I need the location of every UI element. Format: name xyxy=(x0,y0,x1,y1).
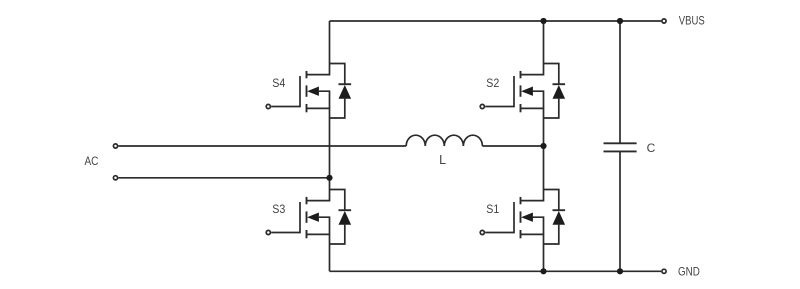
S2 body diode bottom stub xyxy=(544,98,559,118)
S1 body/source connection wire xyxy=(532,217,544,234)
S3 body/source connection wire xyxy=(318,217,330,234)
capacitor C top plate xyxy=(604,142,637,144)
transistor S3 (N-MOSFET with body diode) xyxy=(266,178,351,271)
terminal AC line2 circle xyxy=(113,176,117,180)
svg-text:C: C xyxy=(647,141,656,155)
S3 drain wire xyxy=(307,178,330,201)
S3 gate lead wire xyxy=(271,232,300,234)
junction node: capacitor / VBUS rail xyxy=(617,18,623,24)
S4 gate terminal circle xyxy=(266,104,270,108)
transistor S2 (N-MOSFET with body diode) xyxy=(480,21,565,146)
wire: top VBUS rail xyxy=(330,20,662,22)
S2 body diode triangle xyxy=(553,85,566,99)
S4 channel bottom dash (source) xyxy=(306,104,308,112)
S3 channel bottom dash (source) xyxy=(306,230,308,238)
S3 body diode bottom stub xyxy=(330,224,345,244)
junction node: S1 source / GND rail xyxy=(540,268,546,274)
S4 drain wire xyxy=(307,21,330,75)
svg-text:S1: S1 xyxy=(486,203,499,216)
wire: AC line2 to S4/S3 node xyxy=(118,177,329,179)
svg-text:AC: AC xyxy=(84,154,98,168)
S1 channel middle dash (body) xyxy=(520,211,522,222)
junction node A: inductor / S2 source / S1 drain xyxy=(540,143,546,149)
S1 gate lead wire xyxy=(485,232,514,234)
S3 gate bar xyxy=(299,202,301,233)
svg-text:S3: S3 xyxy=(272,203,285,216)
S1 source wire xyxy=(521,234,544,271)
S2 drain wire xyxy=(521,21,544,75)
svg-text:GND: GND xyxy=(678,266,700,278)
S1 body diode top stub xyxy=(544,190,559,211)
S3 body diode triangle xyxy=(339,211,352,225)
svg-text:VBUS: VBUS xyxy=(679,16,705,28)
S3 gate terminal circle xyxy=(266,230,270,234)
inductor L xyxy=(406,135,482,146)
S4 source wire xyxy=(307,108,330,177)
S3 body diode top stub xyxy=(330,190,345,211)
capacitor C bottom lead xyxy=(619,151,621,271)
capacitor C bottom plate xyxy=(604,150,637,152)
S4 body diode bottom stub xyxy=(330,98,345,118)
S2 body diode cathode bar xyxy=(553,83,566,85)
S3 body arrow xyxy=(307,213,319,222)
S4 body arrow xyxy=(307,87,319,96)
S2 body diode top stub xyxy=(544,64,559,85)
junction node: S2 drain / VBUS rail xyxy=(540,18,546,24)
S4 channel middle dash (body) xyxy=(306,85,308,96)
S3 channel middle dash (body) xyxy=(306,211,308,222)
svg-text:L: L xyxy=(439,153,446,167)
S1 body diode triangle xyxy=(553,211,566,225)
S3 body diode cathode bar xyxy=(339,209,352,211)
svg-text:S4: S4 xyxy=(272,77,285,90)
capacitor C top lead xyxy=(619,21,621,143)
S2 body/source connection wire xyxy=(532,91,544,108)
junction node B: AC / S4 source / S3 drain xyxy=(326,175,332,181)
S4 body/source connection wire xyxy=(318,91,330,108)
junction node: capacitor / GND rail xyxy=(617,268,623,274)
S1 body arrow xyxy=(521,213,533,222)
S2 gate lead wire xyxy=(485,106,514,108)
S1 gate terminal circle xyxy=(480,230,484,234)
S2 channel bottom dash (source) xyxy=(520,104,522,112)
S1 body diode bottom stub xyxy=(544,224,559,244)
wire: AC line1 to inductor xyxy=(118,145,406,147)
S4 body diode triangle xyxy=(339,85,352,99)
S2 source wire xyxy=(521,108,544,146)
S2 body arrow xyxy=(521,87,533,96)
S4 body diode cathode bar xyxy=(339,83,352,85)
S4 channel top dash (drain) xyxy=(306,71,308,78)
S1 drain wire xyxy=(521,146,544,201)
terminal AC line1 circle xyxy=(113,144,117,148)
S1 channel bottom dash (source) xyxy=(520,230,522,238)
S1 body diode cathode bar xyxy=(553,209,566,211)
S4 gate lead wire xyxy=(271,106,300,108)
wire: inductor to node xyxy=(482,145,543,147)
S2 channel middle dash (body) xyxy=(520,85,522,96)
svg-text:S2: S2 xyxy=(486,77,499,90)
wire: bottom GND rail xyxy=(330,270,662,272)
S3 source wire xyxy=(307,234,330,271)
S3 channel top dash (drain) xyxy=(306,197,308,204)
S2 gate bar xyxy=(513,76,515,107)
S4 body diode top stub xyxy=(330,64,345,85)
transistor S4 (N-MOSFET with body diode) xyxy=(266,21,351,178)
S4 gate bar xyxy=(299,76,301,107)
transistor S1 (N-MOSFET with body diode) xyxy=(480,146,565,271)
S2 gate terminal circle xyxy=(480,104,484,108)
terminal GND circle xyxy=(662,269,666,273)
S1 channel top dash (drain) xyxy=(520,197,522,204)
S1 gate bar xyxy=(513,202,515,233)
terminal VBUS circle xyxy=(662,19,666,23)
S2 channel top dash (drain) xyxy=(520,71,522,78)
